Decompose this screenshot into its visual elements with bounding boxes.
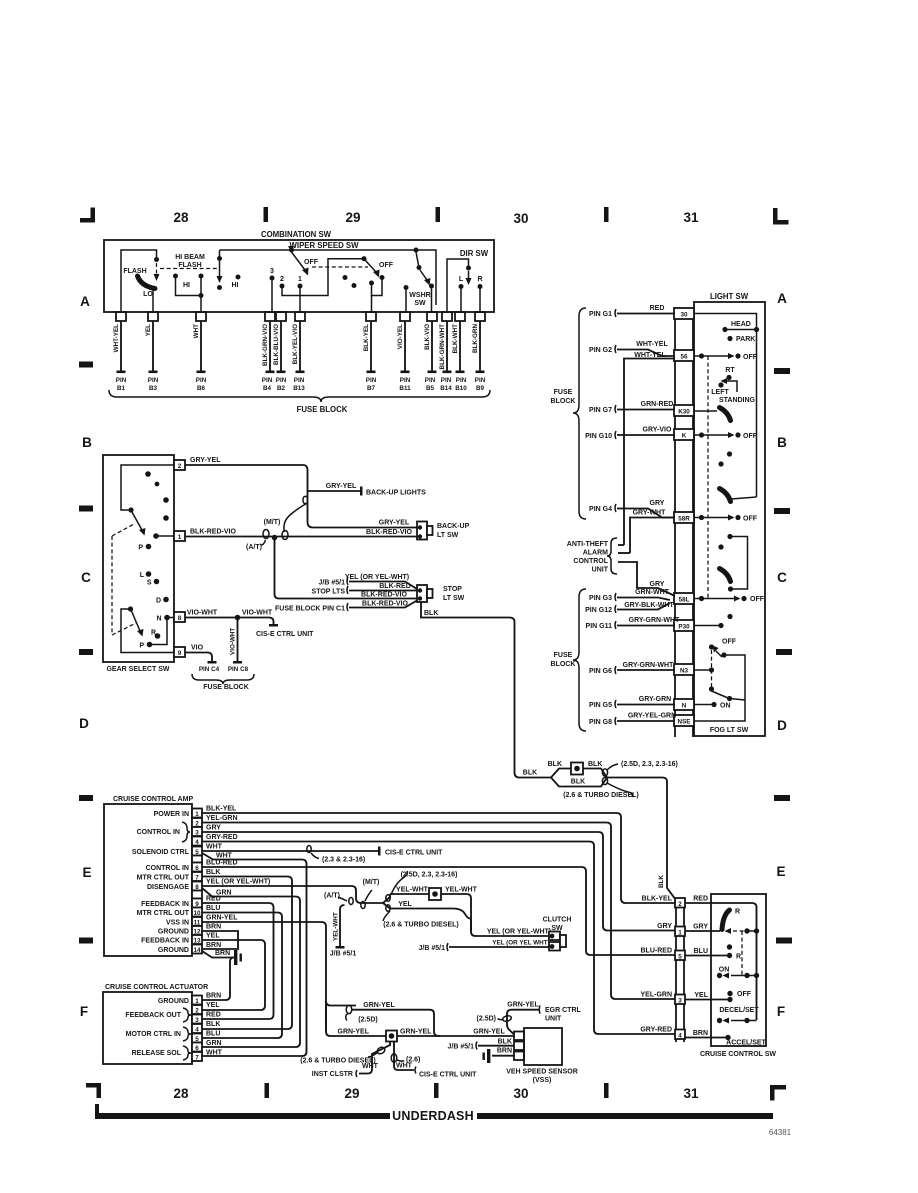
svg-text:GRY-YEL: GRY-YEL xyxy=(190,457,221,464)
inline connector BLK xyxy=(548,761,603,775)
junction node xyxy=(272,535,278,541)
svg-text:OFF: OFF xyxy=(722,639,737,646)
fuse block brace small xyxy=(192,674,254,684)
svg-text:PIN: PIN xyxy=(456,377,467,384)
svg-text:R: R xyxy=(736,954,741,961)
wire YEL xyxy=(685,992,733,1002)
svg-text:2: 2 xyxy=(178,463,182,470)
svg-text:B: B xyxy=(82,435,92,450)
backup lights branch xyxy=(308,483,427,497)
wire BLK-VIO drop xyxy=(424,321,437,392)
svg-text:CONTROL IN: CONTROL IN xyxy=(137,829,180,836)
wire 56 row xyxy=(694,355,700,357)
svg-text:BLK-RED-VIO: BLK-RED-VIO xyxy=(362,601,408,608)
svg-text:B1: B1 xyxy=(117,385,126,392)
wiper2 output U xyxy=(372,279,383,296)
gear select switch box xyxy=(103,455,174,662)
svg-text:F: F xyxy=(777,1004,785,1019)
stop lt sw connector xyxy=(417,585,465,602)
svg-text:GRY-WHT: GRY-WHT xyxy=(633,510,667,517)
svg-text:BLK: BLK xyxy=(498,1039,512,1046)
svg-text:2: 2 xyxy=(195,1007,199,1014)
label (2.5D, 2.3, 2.3-16) xyxy=(607,764,618,770)
blade2 to head bus xyxy=(731,497,757,499)
svg-text:8: 8 xyxy=(178,615,182,622)
corner mark bottom-right xyxy=(770,1085,775,1101)
svg-text:GRY-GRN-WHT: GRY-GRN-WHT xyxy=(623,662,674,669)
svg-text:GRY-RED: GRY-RED xyxy=(640,1027,672,1034)
wire P30 row xyxy=(694,625,719,627)
svg-text:BLOCK: BLOCK xyxy=(551,661,576,668)
harness bar left stub xyxy=(95,1104,99,1114)
wire contact2 zigzag xyxy=(282,259,362,296)
svg-text:BLK: BLK xyxy=(658,875,665,888)
hi contact U link xyxy=(176,276,202,312)
svg-text:5: 5 xyxy=(678,953,682,960)
svg-text:4: 4 xyxy=(678,1032,682,1039)
svg-text:64381: 64381 xyxy=(769,1128,792,1137)
svg-text:7: 7 xyxy=(195,1054,199,1061)
decel row xyxy=(717,1018,722,1023)
wire 30 to head bus xyxy=(694,314,757,328)
svg-text:BRN: BRN xyxy=(206,924,221,931)
svg-text:P: P xyxy=(139,643,144,650)
svg-text:C: C xyxy=(81,570,91,585)
pin 3 xyxy=(192,1015,202,1024)
wiper switch 1 pivot xyxy=(289,248,294,253)
svg-text:HI BEAM: HI BEAM xyxy=(175,254,205,261)
switch blade 2 xyxy=(720,489,731,502)
terminal row under box xyxy=(116,312,485,321)
headlamp flash circuit wire xyxy=(121,250,157,312)
wire RED pin9 xyxy=(202,896,274,1020)
ground symbol xyxy=(234,950,242,965)
alarm unit pin 1 wire xyxy=(618,544,624,546)
pin 8 xyxy=(174,612,185,622)
N to pin 8 xyxy=(167,617,174,619)
wire BLU pin10 xyxy=(202,905,282,1038)
svg-text:6: 6 xyxy=(195,1045,199,1052)
fuse block pin C1 wire xyxy=(275,601,417,613)
svg-text:PARK: PARK xyxy=(736,336,755,343)
svg-text:YEL-GRN: YEL-GRN xyxy=(206,815,238,822)
svg-text:30: 30 xyxy=(680,312,688,319)
wire K30 row to blade xyxy=(694,410,717,412)
svg-text:BLK: BLK xyxy=(571,779,585,786)
svg-text:GRY: GRY xyxy=(693,924,708,931)
pin G3 xyxy=(589,589,670,602)
svg-text:STOP: STOP xyxy=(443,586,462,593)
inner contour lower xyxy=(121,609,174,653)
svg-text:GRY-RED: GRY-RED xyxy=(206,834,238,841)
stop lts feed J/B xyxy=(319,574,417,589)
svg-text:BLK: BLK xyxy=(206,1021,220,1028)
svg-text:B11: B11 xyxy=(399,385,411,392)
svg-text:ON: ON xyxy=(720,703,731,710)
connector loop WHT xyxy=(307,846,311,853)
edge tick right 5 xyxy=(776,938,792,944)
svg-text:CRUISE CONTROL SW: CRUISE CONTROL SW xyxy=(700,1051,776,1058)
terminal 2 xyxy=(675,898,685,908)
wire WHT bus down xyxy=(202,853,307,1056)
terminal P30 xyxy=(674,620,694,631)
svg-text:PIN G10: PIN G10 xyxy=(585,433,612,440)
svg-text:BACK-UP LIGHTS: BACK-UP LIGHTS xyxy=(366,490,426,497)
wire VIO-WHT drop to pin C8 xyxy=(230,618,243,664)
svg-text:PIN G3: PIN G3 xyxy=(589,595,612,602)
wire YEL-WHT to clutch xyxy=(441,894,471,932)
wire BLK-RED-VIO from pin1 xyxy=(185,529,417,537)
svg-text:UNIT: UNIT xyxy=(545,1016,562,1023)
dashed selector line xyxy=(707,356,709,598)
svg-text:PIN: PIN xyxy=(196,377,207,384)
svg-text:CLUTCH: CLUTCH xyxy=(543,917,572,924)
svg-text:GRN-YEL: GRN-YEL xyxy=(400,1029,432,1036)
svg-text:CIS-E CTRL UNIT: CIS-E CTRL UNIT xyxy=(419,1072,477,1079)
pin 1 xyxy=(174,531,185,541)
grid tick bottom xyxy=(604,1083,609,1098)
svg-text:YEL (OR YEL-WHT): YEL (OR YEL-WHT) xyxy=(206,879,270,886)
svg-text:PIN G11: PIN G11 xyxy=(586,623,613,630)
cruise control sw box xyxy=(711,894,766,1046)
strip blank cell xyxy=(192,891,202,899)
svg-text:BRN: BRN xyxy=(693,1030,708,1037)
wire N row / ON xyxy=(694,704,712,706)
svg-text:28: 28 xyxy=(173,1086,189,1101)
svg-text:PIN: PIN xyxy=(148,377,159,384)
svg-text:7: 7 xyxy=(195,874,199,881)
svg-text:BRN: BRN xyxy=(497,1048,512,1055)
svg-text:VEH SPEED SENSOR: VEH SPEED SENSOR xyxy=(506,1069,578,1076)
pin 1 xyxy=(158,996,202,1006)
edge tick right 4 xyxy=(774,795,790,801)
svg-text:GRY-YEL-GRN: GRY-YEL-GRN xyxy=(628,713,676,720)
svg-text:31: 31 xyxy=(683,210,699,225)
wire WHT pin5 xyxy=(202,844,443,857)
svg-text:HI: HI xyxy=(232,282,239,289)
svg-text:WHT: WHT xyxy=(216,853,233,860)
svg-text:COMBINATION SW: COMBINATION SW xyxy=(261,230,332,239)
blade pivot upper xyxy=(128,507,133,512)
pin 2 xyxy=(192,818,202,827)
svg-text:YEL (OR YEL-WHT): YEL (OR YEL-WHT) xyxy=(487,929,551,936)
harness bar right xyxy=(477,1113,773,1119)
svg-text:YEL (OR YEL-WHT): YEL (OR YEL-WHT) xyxy=(345,574,409,581)
wiper blade 1 xyxy=(292,252,306,270)
wire WHT-YEL drop xyxy=(113,321,127,392)
svg-text:YEL-WHT: YEL-WHT xyxy=(445,887,478,894)
node pin1 contact xyxy=(153,533,159,539)
pin 3 xyxy=(192,827,202,836)
svg-text:OFF: OFF xyxy=(743,433,758,440)
svg-text:GRY-VIO: GRY-VIO xyxy=(643,427,672,434)
standing arrow xyxy=(726,381,737,392)
node hi right xyxy=(199,274,204,279)
alarm unit pin 3 wire GRY xyxy=(618,562,675,596)
wire GRN-YEL main down xyxy=(326,1004,386,1036)
wire J/B to clutch lower xyxy=(419,940,550,953)
node head contacts xyxy=(722,327,727,332)
svg-text:FUSE: FUSE xyxy=(554,652,573,659)
svg-text:J/B #5/1: J/B #5/1 xyxy=(330,951,357,958)
pin 4 xyxy=(192,837,202,846)
svg-text:GRY-BLK-WHT: GRY-BLK-WHT xyxy=(624,602,674,609)
label FEEDBACK OUT xyxy=(125,1008,191,1022)
svg-text:GROUND: GROUND xyxy=(158,998,189,1005)
svg-text:GEAR SELECT SW: GEAR SELECT SW xyxy=(106,666,169,673)
svg-text:YEL-WHT: YEL-WHT xyxy=(396,887,429,894)
svg-text:4: 4 xyxy=(195,839,199,846)
svg-text:WSHR: WSHR xyxy=(409,292,430,299)
corner mark bottom-left xyxy=(86,1083,101,1088)
grid tick bottom xyxy=(265,1083,270,1098)
svg-text:BRN: BRN xyxy=(215,950,230,957)
switch blade K30 xyxy=(720,408,731,421)
svg-text:BLU: BLU xyxy=(694,948,708,955)
svg-text:BLK: BLK xyxy=(588,761,602,768)
pin G5 xyxy=(589,696,675,709)
wire BLK J/B xyxy=(448,1039,514,1051)
split 2.5D vs 2.6 xyxy=(383,894,390,909)
svg-text:FUSE BLOCK: FUSE BLOCK xyxy=(203,684,249,691)
svg-text:BLK-RED: BLK-RED xyxy=(379,583,411,590)
svg-text:CIS-E CTRL UNIT: CIS-E CTRL UNIT xyxy=(256,631,314,638)
svg-text:LO: LO xyxy=(143,291,153,298)
pin G8 xyxy=(589,713,676,727)
svg-text:MTR CTRL OUT: MTR CTRL OUT xyxy=(137,875,190,882)
pin 5 xyxy=(192,1034,202,1043)
svg-text:YEL: YEL xyxy=(398,901,412,908)
edge tick left 1 xyxy=(79,362,93,368)
wire BLU-RED pin6 xyxy=(202,860,675,956)
svg-text:PIN: PIN xyxy=(262,377,273,384)
svg-text:INST CLSTR: INST CLSTR xyxy=(312,1071,353,1078)
edge tick right 1 xyxy=(774,368,790,374)
branch to CIS-E xyxy=(391,1042,420,1071)
svg-text:N3: N3 xyxy=(680,668,689,675)
svg-text:YEL-WHT: YEL-WHT xyxy=(333,912,340,941)
clutch sw connector xyxy=(543,917,572,951)
wire GRN-YEL 2.5D branch xyxy=(326,1001,378,1024)
combination switch box xyxy=(104,240,494,312)
svg-text:GRN-YEL: GRN-YEL xyxy=(473,1029,505,1036)
svg-text:OFF: OFF xyxy=(743,354,758,361)
svg-text:RED: RED xyxy=(206,896,221,903)
wire BLK pin7 xyxy=(202,869,292,1029)
wire BLK-GRN drop xyxy=(472,321,486,392)
svg-text:PIN: PIN xyxy=(475,377,486,384)
svg-text:13: 13 xyxy=(193,937,201,944)
label (2.5D, 2.3, 2.3-16) xyxy=(391,871,408,895)
wire VIO pin9 xyxy=(185,645,217,664)
svg-text:WHT-YEL: WHT-YEL xyxy=(113,324,120,352)
label M/T xyxy=(365,890,372,901)
wire GRY-YEL down to backup sw xyxy=(308,487,418,528)
wire BRN pin12 bracket xyxy=(202,924,238,950)
svg-text:OFF: OFF xyxy=(750,596,765,603)
svg-text:J/B #5/1: J/B #5/1 xyxy=(319,580,346,587)
light switch box xyxy=(694,302,765,736)
svg-text:FEEDBACK IN: FEEDBACK IN xyxy=(141,938,189,945)
pin 2 xyxy=(174,460,185,470)
svg-text:B3: B3 xyxy=(149,385,158,392)
dir arrow xyxy=(468,271,470,279)
label (2.6 & TURBO DIESEL) xyxy=(607,783,633,797)
wiper bus wire xyxy=(220,250,437,305)
svg-text:PIN G4: PIN G4 xyxy=(589,506,612,513)
wire blade to pin xyxy=(152,289,154,312)
svg-text:GROUND: GROUND xyxy=(158,947,189,954)
pin 6 xyxy=(192,1043,202,1052)
label (2.6 & TURBO DIESEL) xyxy=(383,911,390,921)
wire BLK-YEL-VIO drop xyxy=(292,321,305,392)
blade lower xyxy=(132,611,141,631)
wiper switch 2 pivot xyxy=(362,256,367,261)
svg-text:UNIT: UNIT xyxy=(592,567,609,574)
svg-text:(2.6 & TURBO DIESEL): (2.6 & TURBO DIESEL) xyxy=(563,792,638,799)
svg-text:PIN: PIN xyxy=(425,377,436,384)
svg-text:YEL: YEL xyxy=(694,992,708,999)
svg-text:3: 3 xyxy=(270,268,274,275)
wire YEL-GRN pin2 xyxy=(202,815,675,999)
dashed link R rows xyxy=(741,931,743,975)
wire BLK-GRN-VIO drop xyxy=(262,321,275,392)
svg-text:GRN: GRN xyxy=(206,1040,222,1047)
svg-text:PIN G2: PIN G2 xyxy=(589,347,612,354)
svg-text:N: N xyxy=(682,703,687,710)
svg-text:HI: HI xyxy=(183,282,190,289)
contacts below 58L xyxy=(727,614,732,619)
edge tick left 2 xyxy=(79,506,93,512)
edge tick left 5 xyxy=(79,938,93,944)
wire GRY pin3 xyxy=(202,825,675,931)
svg-text:D: D xyxy=(79,716,89,731)
connector loop M/T xyxy=(284,496,308,532)
svg-text:A: A xyxy=(777,291,787,306)
svg-text:BRN: BRN xyxy=(206,993,221,1000)
svg-text:9: 9 xyxy=(178,650,182,657)
pin 1 xyxy=(154,809,202,819)
fuse block brace upper xyxy=(573,308,586,519)
wire K row xyxy=(694,434,700,436)
svg-text:BLK-VIO: BLK-VIO xyxy=(424,324,431,350)
svg-text:E: E xyxy=(82,865,91,880)
terminal K xyxy=(674,429,694,440)
hi contact 2 xyxy=(236,275,241,280)
svg-text:FUSE: FUSE xyxy=(554,389,573,396)
svg-text:B9: B9 xyxy=(476,385,485,392)
svg-text:(A/T): (A/T) xyxy=(324,893,340,900)
grid tick top xyxy=(436,207,441,222)
switch blade 3 xyxy=(720,569,731,582)
pin 10 xyxy=(137,908,202,918)
right link rail xyxy=(730,537,748,590)
wire GRN pin8 branch xyxy=(202,888,300,1047)
svg-text:BLK: BLK xyxy=(523,770,537,777)
pin G12 xyxy=(585,602,674,614)
wire BRN to ground xyxy=(202,950,234,958)
wire N3 row xyxy=(694,669,711,671)
svg-text:WHT: WHT xyxy=(206,844,223,851)
grid tick top xyxy=(604,207,609,222)
pin 5 xyxy=(132,847,202,857)
pin G7 xyxy=(589,401,675,414)
svg-text:GROUND: GROUND xyxy=(158,929,189,936)
node VIO-WHT junction xyxy=(235,615,241,621)
svg-text:28: 28 xyxy=(173,210,189,225)
svg-text:GRN-YEL: GRN-YEL xyxy=(338,1029,370,1036)
svg-text:WHT: WHT xyxy=(362,1063,379,1070)
svg-text:WHT-YEL: WHT-YEL xyxy=(636,341,668,348)
fog lower contact xyxy=(712,691,729,698)
svg-text:BLK-RED-VIO: BLK-RED-VIO xyxy=(190,529,236,536)
wire YEL lower branch xyxy=(390,901,471,919)
wire washer contact drops xyxy=(406,287,432,312)
svg-text:NSE: NSE xyxy=(678,719,691,726)
flash dashed arrow xyxy=(156,263,158,275)
svg-text:A: A xyxy=(80,294,90,309)
edge tick left 4 xyxy=(79,795,93,801)
svg-text:WHT: WHT xyxy=(206,1050,223,1057)
contact dots upper arc xyxy=(145,471,151,477)
washer blade xyxy=(416,252,419,265)
wire VIO-WHT pin8 xyxy=(185,610,278,627)
svg-text:PIN: PIN xyxy=(441,377,452,384)
wire YEL-WHT upper branch xyxy=(390,887,429,895)
svg-text:1: 1 xyxy=(678,929,682,936)
wiper blade 2 xyxy=(365,260,376,272)
blade upper xyxy=(132,512,142,530)
dir pivot xyxy=(466,266,471,271)
svg-text:31: 31 xyxy=(683,1086,699,1101)
svg-text:3: 3 xyxy=(678,997,682,1004)
terminal NSE xyxy=(674,715,694,726)
svg-text:PIN G8: PIN G8 xyxy=(589,719,612,726)
terminal 5 xyxy=(675,951,685,961)
svg-text:YEL-GRN: YEL-GRN xyxy=(641,992,673,999)
svg-text:B13: B13 xyxy=(293,385,305,392)
terminal 1 xyxy=(675,927,685,937)
wire GRY-RED pin4 xyxy=(202,834,675,1034)
label RELEASE SOL xyxy=(132,1046,191,1060)
svg-text:L: L xyxy=(459,276,464,283)
svg-text:BLK-GRN-WHT: BLK-GRN-WHT xyxy=(439,324,446,370)
pin 13 xyxy=(141,935,202,945)
svg-text:FUSE BLOCK PIN C1: FUSE BLOCK PIN C1 xyxy=(275,606,345,613)
INST CLSTR terminal xyxy=(312,1070,357,1078)
svg-text:30: 30 xyxy=(513,1086,528,1101)
svg-text:BLK: BLK xyxy=(206,869,220,876)
svg-text:(2.5D, 2.3, 2.3-16): (2.5D, 2.3, 2.3-16) xyxy=(401,872,458,879)
svg-text:PIN G6: PIN G6 xyxy=(589,668,612,675)
svg-text:1: 1 xyxy=(298,276,302,283)
pin 14 xyxy=(158,945,202,955)
pin 11 xyxy=(166,917,202,927)
svg-text:VIO-YEL: VIO-YEL xyxy=(397,324,404,349)
wire BLK to cruise sw xyxy=(607,778,676,901)
svg-text:VIO: VIO xyxy=(191,645,204,652)
svg-text:UNDERDASH: UNDERDASH xyxy=(392,1109,474,1123)
fuse block brace xyxy=(109,390,490,402)
washer contacts xyxy=(404,285,409,290)
svg-text:WHT: WHT xyxy=(396,1063,413,1070)
wire BLK-WHT drop xyxy=(452,321,467,392)
svg-text:B2: B2 xyxy=(277,385,286,392)
svg-text:(VSS): (VSS) xyxy=(533,1077,552,1084)
svg-text:PIN G5: PIN G5 xyxy=(589,702,612,709)
pin 9 xyxy=(141,899,202,909)
dashed wiper link xyxy=(312,266,368,268)
